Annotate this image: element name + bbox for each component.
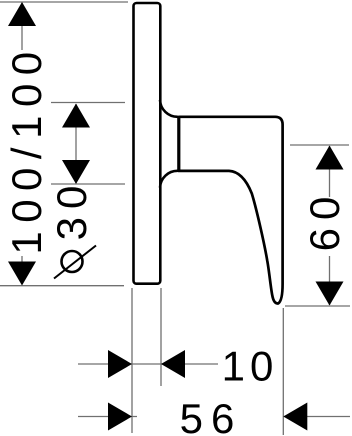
sleeve fillet bottom (160, 171, 178, 188)
extension line: sleeve bottom (d30 lower) (51, 183, 125, 185)
sleeve fillet top (160, 100, 178, 117)
svg-text:60: 60 (301, 189, 348, 252)
svg-text:30: 30 (48, 178, 95, 241)
arrowhead down d30 (62, 160, 90, 184)
extension line: sleeve top (d30 upper) (51, 102, 125, 104)
arrowhead left 56 (283, 403, 307, 431)
svg-text:100/100: 100/100 (3, 43, 50, 254)
extension line: plate front face down to 10 dim (160, 288, 162, 386)
svg-text:10: 10 (222, 343, 279, 390)
svg-text:56: 56 (180, 395, 243, 436)
dimension line 56 right stub (283, 416, 350, 418)
extension line: plate top edge (100/100 upper) (0, 1, 128, 3)
dimension line 10 (78, 363, 218, 365)
arrowhead up 60 (316, 146, 344, 170)
handle lever outline (179, 117, 283, 304)
arrowhead left 10 (161, 350, 185, 378)
arrowhead right 10 (108, 350, 132, 378)
handle hub joint line (177, 116, 180, 172)
extension line: lever tip down to 56 dim (282, 308, 284, 435)
arrowhead up 100/100 (8, 2, 36, 26)
arrowhead down 100/100 (8, 262, 36, 286)
arrowhead right 56 (108, 403, 132, 431)
dimension line 60 lower segment (329, 256, 331, 305)
arrowhead up d30 (62, 104, 90, 128)
diameter symbol circle (62, 251, 83, 272)
extension line: plate bottom edge (100/100 lower) (0, 285, 124, 287)
dimension line 100/100 lower segment (21, 256, 23, 284)
diameter symbol slash (54, 246, 96, 279)
extension line: lever tip level (60 lower) (285, 305, 350, 307)
wall plate (side view) (134, 3, 161, 284)
dimension line 56 left stub (78, 416, 137, 418)
dimension line 100/100 upper segment (21, 3, 23, 50)
dimension line d30 (75, 104, 77, 183)
extension line: plate back face down to 10/56 dims (131, 288, 133, 433)
extension line: valve axis (60 upper) (290, 144, 349, 146)
arrowhead down 60 (316, 282, 344, 306)
dimension line 60 upper segment (329, 146, 331, 197)
